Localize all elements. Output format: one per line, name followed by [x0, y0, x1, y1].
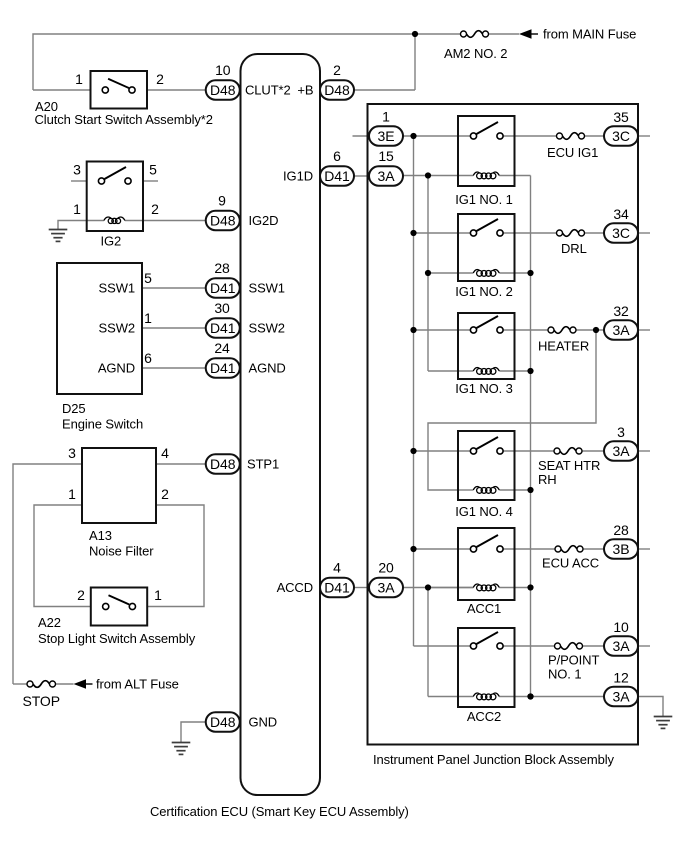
svg-text:Certification ECU (Smart Key E: Certification ECU (Smart Key ECU Assembl…	[150, 804, 409, 819]
svg-text:6: 6	[333, 148, 341, 164]
svg-text:D48: D48	[210, 212, 236, 228]
svg-text:3A: 3A	[378, 168, 396, 184]
svg-text:6: 6	[144, 350, 152, 366]
svg-text:AGND: AGND	[98, 361, 135, 376]
svg-text:Stop Light Switch Assembly: Stop Light Switch Assembly	[38, 631, 196, 646]
svg-text:Engine Switch: Engine Switch	[62, 417, 143, 432]
svg-text:STOP: STOP	[23, 693, 60, 709]
svg-text:ECU IG1: ECU IG1	[547, 145, 598, 160]
svg-text:5: 5	[149, 162, 157, 178]
svg-text:Noise Filter: Noise Filter	[89, 544, 154, 559]
svg-text:ECU ACC: ECU ACC	[542, 556, 599, 571]
svg-text:3B: 3B	[613, 541, 630, 557]
svg-text:28: 28	[613, 522, 629, 538]
svg-text:D48: D48	[210, 714, 236, 730]
svg-text:2: 2	[156, 71, 164, 87]
svg-text:3: 3	[617, 424, 625, 440]
svg-text:D41: D41	[210, 360, 236, 376]
svg-text:ACC2: ACC2	[467, 709, 501, 724]
svg-text:12: 12	[613, 670, 629, 686]
svg-text:1: 1	[382, 109, 390, 125]
svg-text:Clutch Start Switch Assembly*2: Clutch Start Switch Assembly*2	[35, 112, 213, 127]
svg-text:ACCD: ACCD	[277, 580, 313, 595]
svg-text:IG2D: IG2D	[249, 213, 279, 228]
svg-text:A13: A13	[89, 528, 112, 543]
svg-text:SSW2: SSW2	[99, 321, 135, 336]
svg-text:5: 5	[144, 270, 152, 286]
svg-text:Instrument Panel Junction Bloc: Instrument Panel Junction Block Assembly	[373, 752, 615, 767]
svg-text:IG1 NO. 3: IG1 NO. 3	[455, 381, 513, 396]
svg-text:DRL: DRL	[561, 241, 587, 256]
svg-text:D25: D25	[62, 401, 86, 416]
svg-text:IG1 NO. 1: IG1 NO. 1	[455, 192, 513, 207]
svg-text:3A: 3A	[613, 443, 631, 459]
svg-text:35: 35	[613, 109, 629, 125]
svg-text:RH: RH	[538, 472, 557, 487]
svg-text:CLUT*2: CLUT*2	[245, 83, 291, 98]
svg-text:20: 20	[378, 560, 394, 576]
svg-text:AM2 NO. 2: AM2 NO. 2	[444, 46, 507, 61]
svg-text:SEAT HTR: SEAT HTR	[538, 458, 600, 473]
svg-text:D41: D41	[324, 579, 350, 595]
svg-text:1: 1	[75, 71, 83, 87]
svg-text:D48: D48	[210, 456, 236, 472]
svg-text:2: 2	[333, 62, 341, 78]
svg-text:3A: 3A	[613, 638, 631, 654]
svg-text:IG2: IG2	[101, 234, 122, 249]
svg-text:28: 28	[214, 260, 230, 276]
svg-text:IG1 NO. 2: IG1 NO. 2	[455, 284, 513, 299]
svg-text:2: 2	[151, 201, 159, 217]
svg-text:+B: +B	[297, 83, 313, 98]
svg-text:3A: 3A	[613, 322, 631, 338]
svg-text:IG1D: IG1D	[283, 169, 313, 184]
svg-text:from ALT Fuse: from ALT Fuse	[96, 677, 179, 692]
svg-text:1: 1	[154, 587, 162, 603]
svg-text:SSW1: SSW1	[249, 281, 285, 296]
svg-text:SSW2: SSW2	[249, 321, 285, 336]
svg-text:24: 24	[214, 340, 230, 356]
svg-text:3C: 3C	[612, 225, 630, 241]
svg-text:2: 2	[161, 486, 169, 502]
svg-text:3E: 3E	[378, 128, 395, 144]
svg-text:from MAIN Fuse: from MAIN Fuse	[543, 27, 636, 42]
svg-text:NO. 1: NO. 1	[548, 667, 581, 682]
svg-text:D48: D48	[210, 82, 236, 98]
svg-text:3A: 3A	[378, 579, 396, 595]
svg-text:3C: 3C	[612, 128, 630, 144]
svg-text:D48: D48	[324, 82, 350, 98]
svg-text:3A: 3A	[613, 688, 631, 704]
svg-text:ACC1: ACC1	[467, 601, 501, 616]
svg-text:A22: A22	[38, 615, 61, 630]
svg-text:2: 2	[77, 587, 85, 603]
svg-text:SSW1: SSW1	[99, 281, 135, 296]
svg-text:D41: D41	[324, 168, 350, 184]
svg-text:D41: D41	[210, 280, 236, 296]
svg-text:1: 1	[73, 201, 81, 217]
svg-text:4: 4	[161, 445, 169, 461]
svg-text:3: 3	[68, 445, 76, 461]
svg-text:10: 10	[215, 62, 231, 78]
svg-text:10: 10	[613, 619, 629, 635]
svg-text:32: 32	[613, 303, 629, 319]
svg-text:AGND: AGND	[249, 361, 286, 376]
svg-text:1: 1	[68, 486, 76, 502]
svg-text:D41: D41	[210, 320, 236, 336]
svg-text:1: 1	[144, 310, 152, 326]
svg-text:HEATER: HEATER	[538, 339, 589, 354]
svg-text:4: 4	[333, 560, 341, 576]
svg-text:34: 34	[613, 206, 629, 222]
svg-text:9: 9	[218, 193, 226, 209]
svg-text:15: 15	[378, 148, 394, 164]
svg-text:GND: GND	[249, 715, 278, 730]
svg-text:IG1 NO. 4: IG1 NO. 4	[455, 504, 513, 519]
svg-text:30: 30	[214, 300, 230, 316]
svg-text:STP1: STP1	[247, 457, 279, 472]
svg-text:3: 3	[73, 162, 81, 178]
svg-text:P/POINT: P/POINT	[548, 653, 599, 668]
